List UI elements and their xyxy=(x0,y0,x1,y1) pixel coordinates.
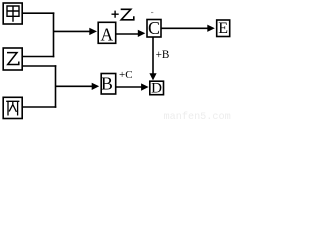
wire C down to D with arrowhead xyxy=(149,37,156,80)
box A xyxy=(98,22,116,44)
box C xyxy=(147,18,161,38)
wire A to C with arrowhead xyxy=(116,30,145,37)
label plus of +乙 xyxy=(112,11,119,18)
wire B to D with arrowhead xyxy=(116,83,149,90)
wire 甲 to junction1 xyxy=(23,12,55,14)
box B xyxy=(101,73,116,94)
box D xyxy=(150,81,164,97)
junction1 vertical xyxy=(53,12,55,57)
svg-text:A: A xyxy=(100,24,113,44)
wire 乙 lower to junction2 xyxy=(23,65,57,67)
box E xyxy=(217,20,230,37)
svg-text:E: E xyxy=(218,20,228,37)
arrow junction2 to B xyxy=(56,83,100,90)
svg-text:D: D xyxy=(151,81,162,97)
svg-text:manfen5.com: manfen5.com xyxy=(164,111,231,122)
svg-text:C: C xyxy=(148,18,160,38)
arrow junction1 to A xyxy=(54,28,98,35)
svg-text:+C: +C xyxy=(119,69,133,81)
wire C to E with arrowhead xyxy=(161,25,215,32)
box 乙 xyxy=(3,48,22,70)
svg-text:B: B xyxy=(101,73,113,93)
svg-text:+B: +B xyxy=(156,49,170,61)
stray mark xyxy=(151,12,153,14)
box 丙 xyxy=(3,97,22,118)
junction2 vertical xyxy=(55,65,57,108)
label 乙 of +乙 xyxy=(121,9,134,19)
wire 乙 upper to junction1 xyxy=(23,56,55,58)
wire 丙 to junction2 xyxy=(23,106,57,108)
box 甲 xyxy=(3,3,22,24)
